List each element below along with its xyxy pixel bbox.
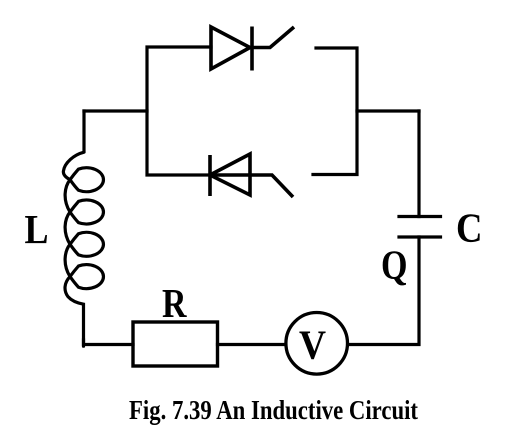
svg-text:Q: Q [381,242,408,288]
svg-text:C: C [456,205,483,251]
svg-text:L: L [25,206,49,252]
svg-text:R: R [162,280,187,326]
svg-text:V: V [299,322,326,368]
svg-text:Fig. 7.39 An Inductive Circuit: Fig. 7.39 An Inductive Circuit [129,395,418,425]
